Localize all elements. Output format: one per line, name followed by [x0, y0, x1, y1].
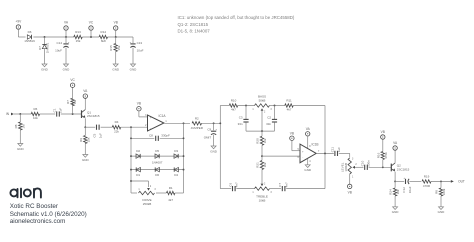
svg-text:D4: D4: [174, 173, 178, 177]
resistor R8: [14, 122, 26, 130]
potentiometer DRIVE: [138, 186, 156, 206]
svg-text:C14: C14: [56, 41, 62, 45]
svg-text:+: +: [302, 150, 304, 153]
junction C8 right: [183, 137, 185, 139]
resistor R6: [31, 107, 40, 120]
resistor R20: [256, 136, 268, 145]
svg-text:JUMPER: JUMPER: [191, 126, 204, 130]
svg-text:R24: R24: [389, 189, 393, 195]
svg-text:R13: R13: [75, 30, 81, 34]
svg-text:GND: GND: [438, 210, 446, 214]
svg-text:C2: C2: [267, 116, 271, 120]
wire R9 to ground: [84, 144, 86, 155]
ground under C13: [130, 64, 138, 71]
wire treble to C7: [270, 188, 282, 190]
capacitor C11: [331, 147, 341, 156]
svg-text:3: 3: [352, 158, 354, 160]
node VC bias: [70, 78, 75, 87]
resistor R7: [66, 98, 77, 106]
wire R13 to R14: [82, 36, 99, 38]
op-amp IC1B: [298, 142, 320, 163]
svg-text:4n7: 4n7: [284, 182, 288, 187]
wire emitter to C12: [395, 180, 404, 182]
svg-text:R7: R7: [66, 100, 70, 104]
wire C12 to R19: [409, 180, 421, 182]
svg-text:D6: D6: [28, 30, 32, 34]
diode D3: [174, 149, 178, 158]
junction C8 left: [130, 137, 132, 139]
capacitor C1: [53, 108, 63, 117]
potentiometer TREBLE: [252, 183, 272, 202]
wire IN to R6: [14, 113, 31, 115]
wire R15 to ground: [115, 52, 117, 65]
node OUT terminal: [451, 180, 465, 184]
capacitor C5: [92, 125, 102, 139]
node VA at Q2: [393, 141, 398, 150]
wire right tone rail: [324, 106, 326, 189]
wire feedback right rail: [183, 123, 185, 193]
junction tone tap: [261, 155, 263, 157]
wire D7 stem: [44, 37, 46, 44]
svg-text:OUT: OUT: [458, 180, 465, 184]
junction Q2 emitter node: [394, 180, 396, 182]
wire VB to IC1B noninverting input: [292, 140, 300, 151]
wire C5 to R4: [101, 126, 113, 128]
svg-text:R19: R19: [424, 174, 430, 178]
svg-text:D2: D2: [136, 149, 140, 153]
svg-text:1uF: 1uF: [99, 133, 103, 138]
wire IC1A output: [164, 122, 190, 124]
svg-text:10k: 10k: [396, 189, 400, 194]
node VB at LEVEL: [348, 184, 352, 194]
wire R6 to C1: [40, 113, 56, 115]
svg-text:VB: VB: [290, 131, 294, 135]
svg-text:Schematic v1.0 (6/26/2020): Schematic v1.0 (6/26/2020): [10, 211, 87, 218]
svg-text:GND: GND: [82, 158, 90, 162]
wire R23 stem: [440, 181, 442, 187]
svg-text:R2: R2: [195, 116, 199, 120]
svg-text:GND: GND: [392, 210, 400, 214]
svg-text:100k: 100k: [442, 188, 446, 195]
svg-text:D1-5, 8: 1N4007: D1-5, 8: 1N4007: [178, 29, 211, 34]
svg-text:10k: 10k: [33, 116, 38, 120]
svg-text:VA: VA: [64, 21, 69, 25]
transistor Q2: [391, 163, 409, 172]
svg-text:C1: C1: [53, 108, 57, 112]
resistor R2: [191, 116, 204, 130]
svg-text:R11: R11: [286, 99, 292, 103]
wire BASS to R11: [270, 105, 285, 107]
wire R21 to treble wiper: [261, 170, 263, 184]
svg-text:4k7: 4k7: [168, 198, 173, 202]
wire C7 to right tone rail: [286, 188, 325, 190]
junction drive jog: [130, 180, 132, 182]
junction VC rail: [90, 36, 92, 38]
svg-text:+: +: [68, 41, 70, 44]
wire R19 to OUT: [431, 180, 451, 182]
capacitor C14: [55, 41, 70, 52]
svg-text:50kB: 50kB: [259, 99, 266, 103]
svg-text:GND: GND: [63, 67, 71, 71]
svg-text:D7: D7: [38, 46, 42, 50]
wire VA stem: [65, 30, 67, 37]
ground under R9: [82, 155, 90, 162]
svg-text:15k: 15k: [117, 45, 121, 50]
junction diode row2 right: [183, 169, 185, 171]
wire C10 to Q2 base: [369, 166, 392, 168]
svg-text:2: 2: [355, 164, 357, 166]
svg-text:1: 1: [352, 176, 354, 178]
svg-text:10uF: 10uF: [137, 49, 144, 53]
diode D7: [38, 42, 50, 53]
svg-text:VC: VC: [89, 21, 94, 25]
wire bass bottom row: [246, 130, 275, 132]
transistor Q1: [82, 110, 100, 119]
wire Q1 emitter down: [84, 119, 86, 128]
diode D4: [174, 167, 178, 177]
svg-text:R15: R15: [109, 45, 113, 51]
junction diode row1 right: [183, 155, 185, 157]
resistor R23: [435, 188, 447, 196]
wire R23 to ground: [440, 196, 442, 207]
node VA at Q1: [83, 89, 88, 98]
junction VB rail: [115, 36, 117, 38]
svg-text:VB: VB: [137, 102, 141, 106]
wire R14 to C13 corner: [108, 37, 133, 43]
wire R24 to ground: [394, 196, 396, 207]
svg-text:R1: R1: [169, 186, 173, 190]
ground under C9: [210, 146, 218, 153]
node VA at IC1B: [306, 127, 311, 136]
svg-text:C10: C10: [361, 160, 365, 166]
node VB at IC1A: [137, 102, 141, 111]
wire Q2 emitter down: [394, 172, 396, 182]
wire R7 to VC node: [72, 87, 74, 98]
diode D6: [24, 30, 35, 43]
diode D2: [136, 149, 140, 158]
svg-text:R10: R10: [231, 99, 237, 103]
svg-text:C13: C13: [137, 41, 143, 45]
wire R10 to BASS: [238, 105, 255, 107]
wire VB to IC1A noninverting input: [139, 111, 148, 117]
ground under IC1B: [304, 165, 312, 172]
svg-text:VA: VA: [83, 89, 88, 93]
svg-text:D6: D6: [155, 173, 159, 177]
svg-text:4: 4: [309, 161, 311, 163]
resistor R13: [74, 30, 83, 43]
svg-text:aionelectronics.com: aionelectronics.com: [10, 218, 66, 225]
wire D7 to ground: [44, 49, 46, 64]
wire VA to IC1B power: [307, 136, 309, 149]
wire diode row 1: [131, 155, 184, 157]
node +9V supply terminal: [16, 20, 23, 30]
svg-text:D5: D5: [155, 149, 159, 153]
capacitor C8: [149, 134, 170, 141]
wire VB stem: [115, 30, 117, 37]
svg-text:470R: 470R: [423, 184, 431, 188]
svg-text:1N4001: 1N4001: [46, 42, 50, 53]
svg-text:330pF: 330pF: [161, 134, 170, 138]
wire R11 to right tone rail: [293, 105, 325, 107]
svg-text:33n: 33n: [266, 122, 271, 126]
wire R1 to right rail: [175, 192, 184, 194]
note text line 3: [178, 29, 211, 34]
junction diode row2 left: [130, 169, 132, 171]
svg-text:22k: 22k: [114, 129, 119, 133]
junction feedback right rail top: [183, 122, 185, 124]
wire R15 stem: [115, 37, 117, 44]
wire drive wiper jog: [131, 181, 149, 187]
svg-text:C11: C11: [331, 147, 335, 153]
svg-text:15k: 15k: [76, 39, 81, 43]
resistor R24: [389, 188, 401, 196]
svg-text:-: -: [150, 127, 151, 130]
capacitor C10: [361, 160, 371, 170]
svg-text:VA: VA: [393, 141, 398, 145]
title line 1: [10, 203, 58, 210]
junction IC1B output rail: [324, 152, 326, 154]
junction C2 top: [274, 105, 276, 107]
svg-text:Q1-2: 2SC1815: Q1-2: 2SC1815: [178, 22, 209, 27]
junction diode row1 left: [130, 155, 132, 157]
logo aion: [10, 188, 41, 197]
title line 3: [10, 218, 66, 225]
ground under R8: [17, 144, 25, 151]
wire C14 to ground: [65, 48, 67, 64]
svg-text:10uF: 10uF: [408, 186, 412, 193]
svg-text:GND: GND: [304, 168, 312, 172]
wire diode row 2: [131, 169, 184, 171]
ground under D7: [41, 64, 49, 71]
ground under R24: [392, 207, 400, 214]
wire IC1B ground stem: [307, 159, 309, 165]
svg-text:1: 1: [252, 109, 254, 111]
wire bass wiper stem: [261, 111, 263, 131]
svg-text:IC1: unknown (top sanded off,: IC1: unknown (top sanded off, but though…: [178, 15, 295, 20]
wire VC stem: [90, 30, 92, 37]
svg-text:VC: VC: [70, 78, 75, 82]
svg-text:1N5819: 1N5819: [24, 39, 35, 43]
resistor R10: [229, 99, 238, 112]
wire tone tap to IC1B: [262, 155, 300, 157]
svg-text:1: 1: [165, 121, 167, 123]
junction bass wiper row: [261, 130, 263, 132]
junction R23 tap: [440, 180, 442, 182]
svg-text:IC1B: IC1B: [311, 142, 318, 146]
note text line 2: [178, 22, 209, 27]
svg-text:2SC1815: 2SC1815: [397, 168, 410, 172]
junction C3 top: [245, 105, 247, 107]
svg-text:15k: 15k: [86, 137, 90, 142]
svg-text:R4: R4: [115, 120, 119, 124]
svg-text:GND: GND: [41, 67, 49, 71]
wire rail to R10: [220, 105, 229, 107]
svg-text:2SC1815: 2SC1815: [87, 114, 100, 118]
svg-text:2: 2: [264, 111, 266, 113]
node VA power: [64, 21, 69, 31]
junction R16 tap: [382, 166, 384, 168]
svg-text:OMIT: OMIT: [204, 136, 212, 140]
svg-text:1M: 1M: [73, 99, 77, 104]
svg-text:3: 3: [270, 109, 272, 111]
ground under R15: [112, 64, 120, 71]
capacitor C12: [402, 177, 412, 193]
junction D7 tap: [44, 36, 46, 38]
svg-text:1N4007: 1N4007: [152, 160, 163, 164]
svg-text:6: 6: [298, 157, 300, 159]
svg-text:VB: VB: [348, 190, 352, 194]
svg-text:VA: VA: [306, 127, 311, 131]
svg-text:10k: 10k: [263, 138, 267, 143]
svg-text:10k: 10k: [263, 162, 267, 167]
wire IC1B output: [316, 152, 334, 154]
wire C11 to LEVEL: [339, 153, 350, 157]
wire emitter to C5: [85, 126, 95, 128]
note text line 1: [178, 15, 295, 20]
ground under C14: [63, 64, 71, 71]
svg-text:4k7: 4k7: [287, 108, 292, 112]
svg-text:6k8: 6k8: [101, 39, 106, 43]
capacitor C3: [238, 106, 249, 132]
node VB power: [114, 21, 118, 31]
svg-text:250kB: 250kB: [143, 202, 152, 206]
svg-text:3: 3: [154, 189, 156, 191]
svg-text:2: 2: [264, 183, 266, 185]
node VB at R18: [381, 130, 385, 139]
svg-text:7: 7: [318, 151, 320, 153]
wire R20 to R21: [261, 145, 263, 160]
svg-text:IN: IN: [6, 112, 10, 116]
svg-text:2: 2: [150, 186, 152, 188]
svg-text:GND: GND: [210, 149, 218, 153]
title line 2: [10, 211, 87, 218]
wire C9 to ground: [213, 135, 215, 146]
svg-text:IC1A: IC1A: [158, 114, 166, 118]
svg-text:R16: R16: [376, 152, 380, 158]
junction VA rail: [65, 36, 67, 38]
svg-text:C9: C9: [207, 127, 211, 131]
resistor R1: [166, 186, 175, 202]
wire LEVEL to VB node: [349, 174, 351, 184]
potentiometer LEVEL: [340, 158, 357, 178]
wire C14 stem: [65, 37, 67, 43]
resistor R21: [256, 161, 268, 170]
svg-text:3: 3: [270, 192, 272, 194]
wire tone rail vertical: [219, 106, 221, 189]
svg-text:1: 1: [252, 192, 254, 194]
svg-text:4n7: 4n7: [235, 182, 239, 187]
resistor R11: [285, 99, 294, 112]
svg-text:+: +: [215, 129, 217, 132]
svg-text:1uF: 1uF: [337, 147, 341, 152]
ground under R23: [438, 207, 446, 214]
wire R7 stem: [72, 103, 74, 115]
junction feedback tap: [130, 126, 132, 128]
svg-text:33n: 33n: [238, 122, 243, 126]
capacitor C13: [130, 41, 144, 52]
svg-text:GND: GND: [130, 67, 138, 71]
junction R8 tap: [19, 113, 21, 115]
svg-text:C5: C5: [92, 133, 96, 137]
resistor R14: [99, 30, 108, 43]
wire C8 row left: [131, 137, 154, 139]
resistor R4: [112, 120, 121, 133]
svg-text:10uF: 10uF: [55, 49, 62, 53]
capacitor C6: [228, 182, 238, 191]
svg-text:VB: VB: [381, 130, 385, 134]
svg-text:R6: R6: [33, 107, 37, 111]
node IN terminal: [6, 112, 14, 116]
svg-text:R21: R21: [256, 162, 260, 168]
svg-text:VB: VB: [114, 21, 118, 25]
wire Q2 collector to VA: [394, 150, 396, 163]
svg-text:D1: D1: [136, 173, 140, 177]
wire Q1 collector to VA: [84, 98, 86, 110]
svg-text:C8: C8: [149, 134, 153, 138]
svg-text:GND: GND: [112, 67, 120, 71]
wire pot left lead: [131, 192, 137, 194]
wire R18 stem: [382, 160, 384, 168]
svg-text:470k: 470k: [384, 152, 388, 159]
diode D1: [136, 167, 140, 177]
diode D6 clip: [155, 167, 159, 177]
wire R8 to ground: [19, 130, 21, 144]
wire R2 to tone rail: [202, 122, 221, 124]
node VC power: [89, 21, 94, 31]
wire feedback left rail: [130, 127, 132, 193]
node VB at IC1B: [290, 131, 294, 140]
svg-text:100n: 100n: [367, 160, 371, 167]
svg-text:C6: C6: [228, 183, 232, 187]
wire LEVEL wiper to C10: [355, 166, 363, 168]
svg-text:R8: R8: [14, 124, 18, 128]
capacitor C7: [278, 182, 288, 191]
junction Q1 emitter node: [84, 126, 86, 128]
wire C8 row right: [160, 137, 184, 139]
svg-text:C7: C7: [278, 183, 282, 187]
svg-text:R9: R9: [79, 138, 83, 142]
op-amp IC1A: [145, 114, 167, 131]
resistor R9: [79, 136, 91, 144]
svg-text:C3: C3: [239, 116, 243, 120]
svg-text:1uF: 1uF: [59, 108, 63, 113]
svg-text:100kB: 100kB: [344, 163, 348, 172]
svg-text:-: -: [302, 156, 303, 159]
svg-text:D3: D3: [174, 149, 178, 153]
capacitor C9: [204, 127, 218, 139]
svg-text:10kB: 10kB: [259, 198, 266, 202]
wire C1 to Q1 base: [61, 113, 82, 115]
wire +9V stem: [18, 29, 25, 37]
svg-text:R8: R8: [435, 190, 439, 194]
wire R18 to VB node: [382, 139, 384, 152]
resistor R18: [376, 152, 388, 160]
svg-text:C12: C12: [402, 187, 406, 193]
wire C13 to ground: [132, 48, 134, 64]
svg-text:4k7: 4k7: [231, 108, 236, 112]
wire C6 to treble: [236, 188, 254, 190]
svg-text:1: 1: [138, 189, 140, 191]
junction tone rail: [219, 122, 221, 124]
wire R20 stem: [261, 131, 263, 136]
diode D5: [152, 149, 163, 165]
wire rail D6 to R13: [33, 36, 74, 38]
svg-text:Xotic RC Booster: Xotic RC Booster: [10, 203, 58, 210]
wire R4 to IC1A inverting input: [121, 126, 148, 128]
potentiometer BASS: [252, 95, 272, 114]
wire R24 stem: [394, 181, 396, 187]
wire C9 stem: [213, 123, 215, 130]
